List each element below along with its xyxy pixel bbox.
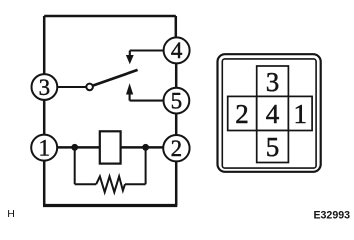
svg-text:1: 1 <box>38 135 50 160</box>
wire right vertical <box>175 16 178 50</box>
wire right vertical 5-2 <box>175 101 178 148</box>
wire left lower vertical <box>43 148 46 205</box>
terminal circle 3 <box>32 74 58 100</box>
wire right lower vertical <box>175 148 178 205</box>
svg-text:4: 4 <box>266 99 280 129</box>
junction dot left <box>71 144 78 151</box>
svg-text:2: 2 <box>235 99 249 129</box>
wire contact upper to pin4 <box>130 51 164 56</box>
switch pivot <box>86 84 93 91</box>
pin box 1 <box>288 96 312 130</box>
svg-text:5: 5 <box>171 88 183 113</box>
junction dot right <box>142 144 149 151</box>
wire left vertical <box>43 16 46 147</box>
coil (relay winding) <box>100 131 121 163</box>
wire top <box>44 15 176 18</box>
wire contact lower to pin5 <box>130 94 164 100</box>
wire switch from pin3 <box>57 86 86 88</box>
wire bottom <box>43 204 177 207</box>
connector outer shell <box>218 54 321 172</box>
arrowhead down (contact 4) <box>126 55 134 64</box>
svg-text:5: 5 <box>266 132 280 162</box>
pin box 5 <box>257 131 289 163</box>
terminal circle 1 <box>31 135 57 161</box>
pin box 4 <box>257 96 289 130</box>
terminal circle 2 <box>163 135 189 161</box>
terminal circle 5 <box>164 88 190 114</box>
wire resistor row <box>75 183 146 185</box>
svg-text:E32993: E32993 <box>313 209 350 221</box>
wire resistor branch right <box>145 147 147 184</box>
pin box 3 <box>257 66 289 96</box>
switch blade <box>93 70 138 86</box>
svg-text:3: 3 <box>39 75 51 100</box>
pin box 2 <box>228 96 257 130</box>
svg-text:4: 4 <box>171 38 183 63</box>
connector inner shell <box>222 59 316 168</box>
svg-text:H: H <box>7 208 15 220</box>
wire coil row <box>57 146 163 149</box>
svg-text:3: 3 <box>266 67 280 97</box>
svg-text:2: 2 <box>171 136 183 161</box>
svg-text:1: 1 <box>293 99 307 129</box>
terminal circle 4 <box>164 37 190 63</box>
arrowhead up (contact 5) <box>126 83 133 94</box>
resistor R <box>96 176 125 192</box>
wire resistor branch left <box>74 147 76 184</box>
wire right vertical 4-5 <box>175 51 178 100</box>
